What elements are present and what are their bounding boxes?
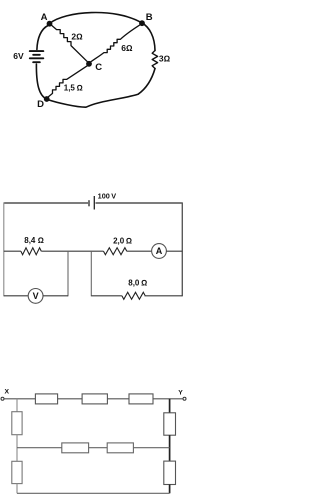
voltmeter V1 circle — [28, 289, 43, 304]
wire right vertical — [181, 202, 183, 296]
resistor box R3 top-right — [129, 394, 153, 404]
svg-text:B: B — [146, 12, 153, 23]
wire right column upper — [169, 399, 171, 413]
resistor 8,0-ohm zigzag — [122, 292, 145, 299]
wire 2,0-ohm to ammeter — [127, 250, 152, 252]
wire right column to bottom — [169, 485, 171, 494]
wire node D to battery bottom — [36, 64, 46, 99]
wire node B to 3-ohm top — [142, 23, 155, 51]
resistor box R7 right lower — [164, 461, 176, 484]
wire X to box R1 — [4, 398, 35, 400]
wire vertical junction x=91.3 — [90, 251, 92, 296]
resistor box R5 left lower — [12, 461, 22, 483]
wire left vertical — [3, 202, 5, 296]
battery B1 plate long top — [30, 50, 44, 52]
wire left column to bottom — [16, 484, 18, 494]
wire 3-ohm bottom around to node D — [48, 69, 156, 108]
resistor box R8 middle-left — [62, 443, 89, 453]
resistor box R6 right upper — [164, 413, 176, 435]
wire ammeter to right wire — [166, 250, 182, 252]
svg-text:C: C — [95, 62, 102, 73]
cell 100V long plate — [93, 196, 95, 210]
svg-text:A: A — [41, 12, 48, 23]
ammeter A1 circle — [152, 244, 167, 259]
svg-text:V: V — [33, 291, 39, 301]
resistor 2-ohm (A to C) staircase — [52, 25, 88, 62]
wire bottom row — [17, 492, 170, 494]
wire middle row right lead — [133, 447, 169, 449]
wire R2 to R3 — [107, 398, 129, 400]
battery B1 plate long lower — [30, 57, 44, 59]
svg-text:100 V: 100 V — [98, 192, 117, 201]
node D dot — [44, 96, 50, 102]
battery B1 plate short — [33, 54, 40, 56]
wire R1 to R2 — [58, 398, 83, 400]
svg-text:2Ω: 2Ω — [71, 32, 83, 42]
svg-text:X: X — [5, 389, 10, 396]
svg-text:3Ω: 3Ω — [159, 54, 171, 64]
resistor R 3-ohm zigzag — [152, 51, 157, 69]
node C dot — [86, 61, 92, 67]
svg-text:6V: 6V — [13, 51, 24, 61]
resistor box R9 middle-right — [107, 443, 133, 453]
battery B1 plate short bottom — [33, 61, 40, 63]
node A dot — [47, 21, 53, 27]
resistor 6-ohm (C to B) staircase — [91, 25, 141, 63]
wire vertical junction x=68 — [67, 251, 69, 296]
svg-text:A: A — [156, 246, 163, 256]
wire node A to node B (top arc) — [50, 12, 143, 23]
wire bottom right lead to 8,0 — [91, 295, 122, 297]
svg-text:8,0 Ω: 8,0 Ω — [128, 279, 147, 288]
wire top right segment — [96, 202, 183, 204]
svg-text:Y: Y — [178, 390, 183, 397]
terminal X circle — [1, 397, 4, 400]
node B dot — [139, 20, 145, 26]
wire right column mid — [169, 435, 171, 461]
wire middle row left lead — [17, 447, 62, 449]
svg-text:8,4 Ω: 8,4 Ω — [24, 236, 44, 245]
svg-text:1,5 Ω: 1,5 Ω — [64, 83, 83, 92]
resistor box R4 left upper — [12, 412, 22, 435]
wire middle row left lead — [4, 250, 21, 252]
cell 100V short plate — [88, 200, 90, 206]
resistor 8,4-ohm zigzag — [21, 248, 41, 255]
svg-text:6Ω: 6Ω — [121, 43, 133, 53]
wire R3 to Y — [153, 398, 183, 400]
resistor 2,0-ohm zigzag — [104, 248, 127, 255]
wire bottom left to voltmeter — [4, 295, 28, 297]
wire left column upper — [16, 399, 18, 412]
wire left column mid — [16, 435, 18, 462]
terminal Y circle — [183, 397, 186, 400]
resistor 1.5-ohm (D to C) staircase — [48, 66, 88, 98]
resistor box R2 top-middle — [82, 394, 107, 404]
svg-text:2,0 Ω: 2,0 Ω — [113, 237, 132, 246]
svg-text:D: D — [37, 99, 44, 110]
wire voltmeter to x=68 — [43, 295, 68, 297]
wire middle row between 8,4 and 2,0 — [41, 250, 103, 252]
resistor box R1 top-left — [35, 394, 57, 404]
wire battery top to node A — [37, 26, 48, 50]
wire top left segment — [4, 202, 88, 204]
wire 8,0 to right wire — [145, 295, 183, 297]
wire middle row between boxes — [89, 447, 108, 449]
